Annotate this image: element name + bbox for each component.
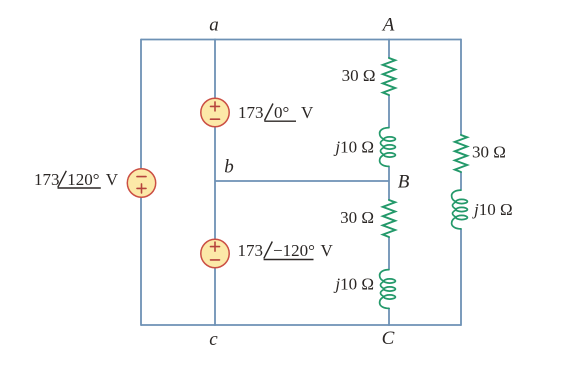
resistor 30ohm branch B lower xyxy=(383,200,395,237)
wire left rail lower xyxy=(140,197,142,326)
svg-text:173: 173 xyxy=(238,103,264,122)
inductor j10ohm right branch xyxy=(452,190,468,229)
svg-text:j10 Ω: j10 Ω xyxy=(333,275,374,294)
svg-text:0°: 0° xyxy=(274,103,289,122)
wire top wire to resistor R3 right branch xyxy=(460,39,462,135)
wire top horizontal xyxy=(141,39,461,41)
svg-text:30 Ω: 30 Ω xyxy=(472,143,506,162)
wire middle rail source2 to c xyxy=(214,268,216,326)
svg-text:30 Ω: 30 Ω xyxy=(342,66,376,85)
svg-text:173: 173 xyxy=(34,170,60,189)
label 173 angle 0 V xyxy=(238,103,314,122)
svg-text:V: V xyxy=(301,103,314,122)
svg-text:C: C xyxy=(382,328,395,349)
resistor 30ohm right branch xyxy=(455,135,467,172)
source V2 173∠0° middle upper xyxy=(201,98,229,126)
source V3 173∠-120° middle lower xyxy=(201,239,229,267)
wire resistor R3 to inductor L3 right branch xyxy=(460,172,462,190)
source V1 173∠120° left xyxy=(127,169,155,197)
wire inductor L2 to node C xyxy=(388,308,390,326)
svg-text:V: V xyxy=(106,170,119,189)
wire b to B horizontal xyxy=(215,180,389,182)
wire middle rail source1 to source2 through b xyxy=(214,127,216,240)
svg-text:A: A xyxy=(381,14,395,35)
wire resistor R1 to inductor L1 xyxy=(388,95,390,127)
svg-text:a: a xyxy=(209,15,219,36)
label 173 angle 120 V xyxy=(34,170,119,189)
wire bottom horizontal xyxy=(141,324,461,326)
svg-text:−120°: −120° xyxy=(273,241,315,260)
wire left rail upper xyxy=(140,39,142,169)
svg-text:b: b xyxy=(224,157,234,178)
svg-text:120°: 120° xyxy=(67,170,99,189)
svg-text:V: V xyxy=(321,241,334,260)
inductor j10ohm branch B lower xyxy=(380,270,396,309)
wire middle rail a to source1 xyxy=(214,39,216,99)
wire resistor R2 to inductor L2 xyxy=(388,237,390,269)
svg-text:c: c xyxy=(209,329,218,350)
wire inductor L3 to bottom wire right branch xyxy=(460,229,462,326)
svg-text:j10 Ω: j10 Ω xyxy=(333,137,374,156)
wire node A to resistor R1 xyxy=(388,39,390,58)
resistor 30ohm branch A upper xyxy=(383,58,395,95)
svg-text:B: B xyxy=(398,171,410,192)
svg-text:j10 Ω: j10 Ω xyxy=(472,200,513,219)
inductor j10ohm branch A upper xyxy=(380,128,396,167)
svg-text:173: 173 xyxy=(238,241,264,260)
label 173 angle -120 V xyxy=(238,241,334,260)
svg-text:30 Ω: 30 Ω xyxy=(340,208,374,227)
wire inductor L1 through node B to resistor R2 xyxy=(388,167,390,200)
